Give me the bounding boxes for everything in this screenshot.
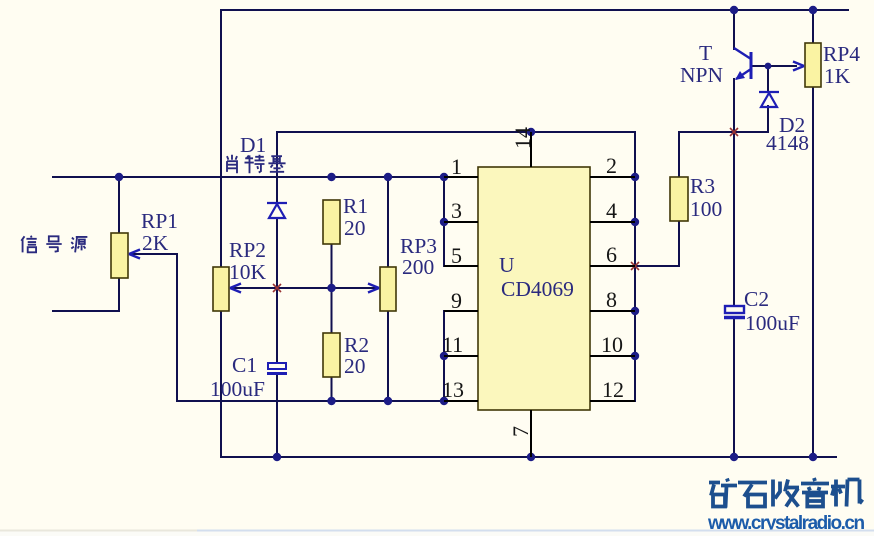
junction dots on supply and ground rails (273, 6, 817, 461)
svg-text:8: 8 (606, 287, 617, 312)
svg-text:6: 6 (606, 242, 617, 267)
wire wiper double arrow RP2-RP3 (231, 287, 378, 289)
potentiometer RP2 body (213, 267, 229, 311)
resistor R1 body (323, 200, 340, 244)
junction dots right rail (527, 128, 639, 360)
svg-text:NPN: NPN (680, 63, 723, 87)
resistor R2 body (323, 333, 340, 377)
char te of D1 label (245, 155, 265, 174)
potentiometer RP3 body (380, 267, 396, 311)
char ji of D1 label (268, 155, 285, 171)
wire transistor collector lead (733, 10, 735, 49)
no-connect cross marker at pin6 / rail crossing (631, 262, 639, 270)
potentiometer RP2 wiper arrow (230, 284, 241, 293)
resistor R3 body (670, 177, 688, 221)
svg-text:20: 20 (344, 354, 366, 378)
potentiometer RP1 body (111, 233, 128, 278)
svg-text:R1: R1 (343, 194, 368, 218)
svg-text:100uF: 100uF (745, 311, 800, 335)
wire R3 top to D2 anode (679, 106, 768, 177)
diode D2 symbol (759, 92, 779, 107)
svg-text:R3: R3 (690, 174, 715, 198)
potentiometer RP4 wiper arrow (793, 62, 804, 71)
char shou of watermark (773, 480, 799, 507)
svg-text:1K: 1K (824, 64, 851, 88)
wire D1 branch vertical (276, 132, 278, 457)
wire RP4 top lead (812, 10, 814, 43)
svg-text:RP2: RP2 (229, 238, 266, 262)
svg-text:10: 10 (601, 332, 623, 357)
wire RP1 bottom stub (53, 278, 119, 311)
capacitor C1 symbol (267, 363, 287, 374)
svg-text:12: 12 (602, 377, 624, 402)
char yuan of signal source label (71, 237, 87, 252)
wire R2 bottom lead (331, 377, 333, 401)
transistor Q T NPN symbol (734, 48, 751, 79)
svg-text:200: 200 (402, 255, 434, 279)
capacitor C2 symbol (724, 306, 745, 318)
char ji of watermark (831, 480, 863, 507)
wire transistor emitter to ground (733, 79, 735, 457)
watermark chinese kuang-shi-shou-yin-ji (709, 478, 863, 508)
IC right pin stubs 2,4,6,8,10,12 (590, 177, 635, 401)
svg-text:13: 13 (442, 377, 464, 402)
IC pin 14 stub (530, 132, 532, 167)
diode D1 symbol (267, 203, 287, 218)
wire RP3 bottom lead (387, 311, 389, 401)
svg-text:U: U (499, 253, 515, 277)
wire pin6 to R3 (590, 221, 679, 266)
transistor emitter arrowhead (735, 71, 745, 80)
svg-text:7: 7 (508, 426, 533, 437)
wire pins 9-11-13 connector (443, 311, 445, 401)
wire RP3 top lead (387, 177, 389, 267)
junction dots left pin connectors (327, 218, 448, 405)
wire bottom ground rail (221, 456, 836, 458)
bottom window edge strip (0, 531, 874, 536)
char shi of watermark (738, 483, 767, 507)
IC pin 7 stub (530, 410, 532, 457)
svg-text:2: 2 (606, 153, 617, 178)
svg-text:100uF: 100uF (210, 377, 265, 401)
potentiometer RP4 body (805, 43, 821, 87)
svg-text:RP4: RP4 (823, 42, 860, 66)
IC U CD4069 body (478, 167, 590, 410)
svg-text:CD4069: CD4069 (501, 277, 574, 301)
junction dots on signal net (115, 173, 448, 181)
wire top supply rail (221, 9, 848, 11)
svg-text:11: 11 (442, 332, 463, 357)
svg-text:20: 20 (344, 216, 366, 240)
no-connect cross marker at emitter / R3 net crossing (730, 128, 738, 136)
junction dot wiper net (327, 284, 335, 292)
wire pins 1-3-5 connector (443, 177, 445, 266)
wire RP1 wiper to lower net (130, 254, 177, 401)
char xiao of D1 label (227, 155, 237, 174)
label D1 type chinese xiao-te-ji (Schottky) (227, 155, 286, 174)
svg-text:4148: 4148 (766, 131, 809, 155)
char kuang of watermark (709, 479, 737, 508)
wire RP4 bottom to ground (812, 87, 814, 457)
wire top mid net pin14 (277, 131, 635, 133)
svg-text:100: 100 (690, 197, 722, 221)
wire left rail to RP2 top (220, 10, 222, 267)
no-connect cross marker at wiper / D1 crossing (273, 284, 281, 292)
svg-text:2K: 2K (142, 231, 169, 255)
wire base node to RP4 wiper (753, 65, 796, 67)
svg-text:C1: C1 (232, 353, 257, 377)
potentiometer RP3 wiper arrow (368, 284, 379, 293)
IC left pin stubs 1,3,5,9,11,13 (444, 177, 478, 401)
svg-text:D1: D1 (240, 133, 266, 157)
wire lower net to pin 13 (177, 400, 444, 402)
wire main signal net (53, 176, 444, 178)
svg-text:9: 9 (451, 288, 462, 313)
svg-text:RP1: RP1 (141, 209, 178, 233)
svg-text:1: 1 (451, 154, 462, 179)
wire R1 to R2 link (331, 244, 333, 333)
wire right output rail (634, 132, 636, 401)
char yin of watermark (801, 478, 829, 507)
char xin of signal source label (21, 236, 36, 253)
label signal source chinese xin-hao-yuan (21, 236, 87, 253)
svg-text:T: T (699, 41, 712, 65)
potentiometer RP1 wiper arrow (129, 250, 140, 259)
svg-text:3: 3 (451, 198, 462, 223)
svg-text:10K: 10K (229, 260, 267, 284)
svg-text:C2: C2 (744, 287, 769, 311)
char hao of signal source label (46, 236, 61, 251)
junction dot transistor base node (765, 63, 772, 70)
svg-text:4: 4 (606, 198, 617, 223)
wire RP1 top lead (118, 177, 120, 233)
wire RP2 bottom to ground rail (220, 311, 222, 457)
svg-text:14: 14 (510, 127, 535, 149)
wire D2 cathode to base node (767, 66, 769, 92)
svg-text:5: 5 (451, 243, 462, 268)
